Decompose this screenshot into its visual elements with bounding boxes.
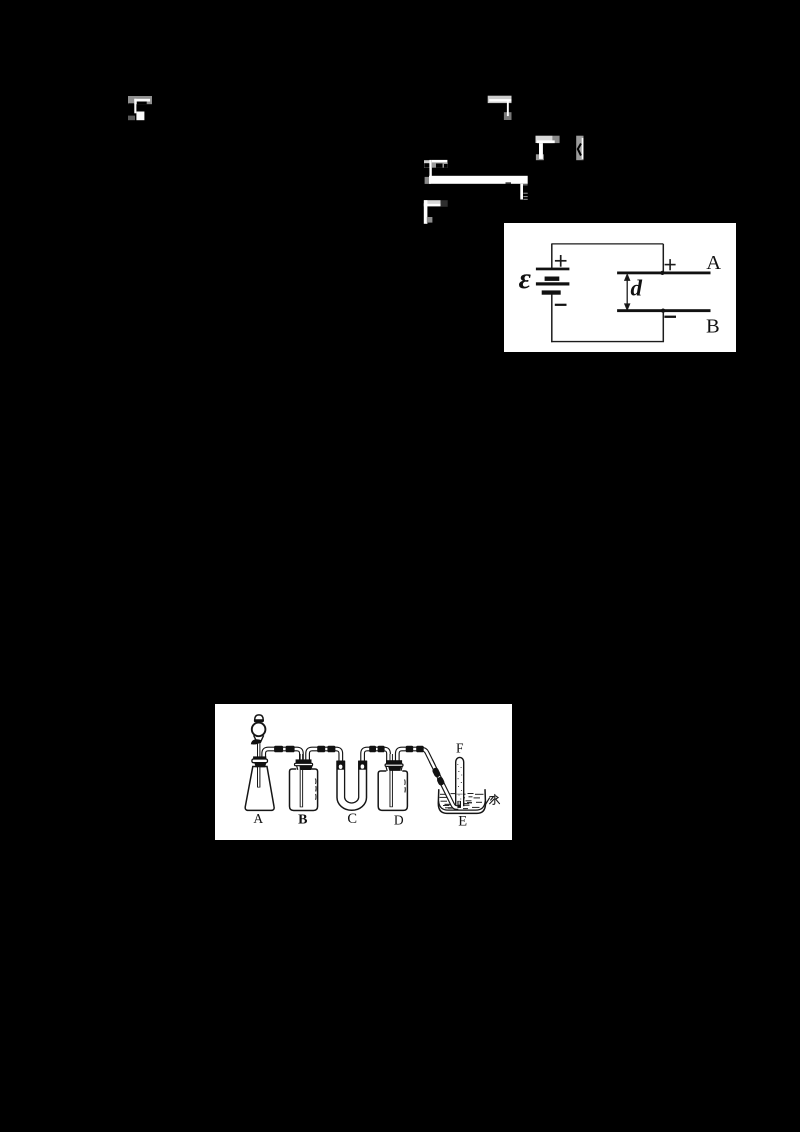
bottle D stopper flange (385, 764, 403, 766)
fragment 3 white bar (537, 140, 555, 143)
fragment 6 white bar (424, 203, 441, 206)
fragment 4 white line (582, 138, 584, 159)
plate B (617, 309, 710, 312)
fragment 5 dark notch in bar (506, 182, 512, 183)
fragment 5 gray rule 4 (523, 199, 527, 200)
wire left vertical lower (551, 295, 553, 343)
U-tube C outer (337, 761, 367, 811)
svg-text:C: C (347, 811, 357, 827)
dropping funnel knob collar (254, 719, 264, 722)
fragment 1 gray corner (128, 116, 135, 121)
battery + sign (555, 255, 567, 267)
trough E outer wall (438, 789, 485, 813)
rubber joint 1 on diagonal tube (431, 767, 441, 778)
rubber connector 1 on tube A-B (274, 746, 283, 753)
panel background (504, 223, 736, 352)
U-tube C inner (345, 761, 359, 803)
svg-text:B: B (298, 813, 307, 828)
fragment 5 gray rule 1 (523, 184, 528, 185)
battery short thick plate 1 (545, 277, 560, 281)
svg-text:D: D (394, 812, 404, 827)
bottle D neck (387, 765, 403, 773)
fragment 2 gray patch (504, 112, 512, 120)
svg-text:d: d (631, 276, 643, 301)
panel background (215, 704, 512, 840)
bottle B label squiggles (314, 779, 317, 800)
pointer line to water label (485, 798, 489, 805)
dropping funnel neck taper (254, 735, 264, 743)
fragment 5 light patch (424, 160, 430, 168)
node dot on plate B (661, 309, 665, 313)
flask A stopper flange (252, 759, 268, 763)
rubber connector 1 on tube C-D (369, 746, 376, 753)
battery long plate 2 (536, 282, 570, 285)
rubber connector 2 on tube D-E (416, 746, 424, 753)
fragment 1 dark notch right (137, 101, 147, 104)
bottle B inlet tube (inside) (300, 754, 303, 807)
U-tube C left clamp (337, 761, 345, 770)
fragment 5 gray rule 2 (523, 193, 527, 194)
trough E inner bottom line (439, 801, 486, 810)
dropping funnel bulb (252, 723, 266, 737)
svg-text:A: A (253, 811, 263, 826)
connecting tube D to E (upper part) (397, 749, 433, 766)
- sign under plate B (664, 316, 676, 318)
fragment 1 white bar (134, 99, 150, 102)
bottle D body (378, 771, 407, 810)
fragment 5 white stem (429, 160, 431, 181)
fragment 2 white stem (507, 102, 509, 117)
connecting tube A to B (264, 749, 302, 762)
test tube F (456, 757, 464, 806)
flask A stopper cone (254, 763, 266, 768)
bottle D label squiggles (404, 780, 407, 793)
dropping funnel stopcock (251, 739, 261, 744)
+ sign near plate A (665, 259, 676, 270)
wire right vertical upper (662, 244, 664, 273)
rubber connector 1 on tube B-C (317, 746, 325, 753)
wire left vertical (battery + lead) (551, 244, 553, 269)
fragment 1 white stem (134, 99, 136, 114)
U-tube C right clamp hole (361, 764, 365, 768)
svg-text:E: E (458, 814, 467, 830)
flask A body (245, 767, 274, 811)
bottle D stopper dark band (386, 760, 402, 765)
distance arrow d (double headed) (625, 275, 630, 310)
test tube F speckles (457, 764, 462, 800)
U-tube C right clamp (358, 761, 367, 770)
fragment 3 dark left edge (536, 143, 538, 154)
wire top horizontal (551, 243, 663, 245)
bottle B neck (297, 764, 311, 772)
delivery tip under test tube F (457, 801, 461, 808)
fragment 6 dark block right (441, 200, 448, 207)
svg-text:F: F (456, 741, 464, 756)
fragment 5 glyph mark 1 (436, 164, 443, 168)
fragment 5 white down stem (520, 184, 523, 200)
bottle D stopper cone (388, 766, 401, 771)
fragment 5 long white bar (429, 176, 528, 184)
rubber joint 2 on diagonal tube (436, 776, 445, 786)
fragment 6 gray patch (427, 217, 433, 223)
fragment 3 white stem (539, 143, 543, 159)
water line seen through tube F (457, 794, 463, 795)
delivery tip slit (459, 801, 460, 804)
bottle B body (290, 769, 318, 811)
svg-text:ε: ε (519, 262, 532, 295)
fragment 1 dark notch left (128, 103, 134, 116)
fragment 6 white stem (424, 200, 428, 224)
water surface hatching in trough (440, 794, 484, 809)
node dot on plate A (660, 271, 664, 275)
dropping funnel top knob (255, 715, 264, 720)
rubber connector 2 on tube B-C (327, 746, 335, 753)
bottle B stopper cone (299, 766, 312, 770)
rubber connector 2 on tube A-B (286, 746, 295, 753)
water hatch thick marks (445, 802, 473, 809)
wire right vertical lower (662, 312, 664, 343)
rubber connector 1 on tube D-E (406, 746, 414, 753)
fragment 4 dark chevron (578, 144, 581, 156)
battery - sign (555, 304, 567, 306)
bottle B stopper dark band (296, 759, 312, 764)
fragment 1 white block (136, 112, 144, 121)
fragment 5 glyph mark 2 (444, 164, 448, 168)
svg-text:B: B (706, 316, 720, 338)
connecting tube C to D (363, 749, 389, 764)
chinese character shui (water) (490, 794, 500, 804)
battery EB top long plate (536, 268, 570, 271)
fragment 5 gray rule 3 (523, 196, 527, 197)
bottle B stopper flange (295, 763, 313, 765)
flask A stopper dark top band (253, 756, 266, 759)
battery short thick plate 2 (542, 290, 561, 294)
fragment 1 base block (128, 96, 152, 104)
connecting tube D to E (diagonal into trough) (431, 761, 458, 808)
connecting tube B to C (308, 749, 341, 764)
fragment 3 light block (536, 136, 553, 143)
fragment 2 white bar (489, 99, 511, 102)
fragment 5 dark mark on patch (424, 163, 429, 167)
U-tube C left clamp hole (339, 765, 343, 769)
plate A (617, 272, 710, 275)
wire bottom horizontal (551, 341, 664, 343)
fragment 4 gray strip (576, 136, 583, 161)
svg-text:A: A (706, 252, 721, 274)
rubber connector 2 on tube C-D (378, 746, 385, 753)
fragment 5 gray patch lower (425, 177, 431, 184)
fragment 6 light strip (424, 200, 441, 203)
fragment 3 gray patch (536, 154, 544, 160)
dropping funnel stem inside flask A (257, 742, 260, 788)
bottle D inlet tube (inside) (390, 754, 393, 807)
bottle D neck sides (386, 766, 402, 771)
fragment 3 dark block (553, 136, 560, 143)
fragment 5 white bar top (432, 160, 448, 163)
bottle B neck sides (297, 766, 312, 770)
fragment 5 gray block (432, 163, 448, 168)
fragment 2 base block (488, 96, 512, 103)
